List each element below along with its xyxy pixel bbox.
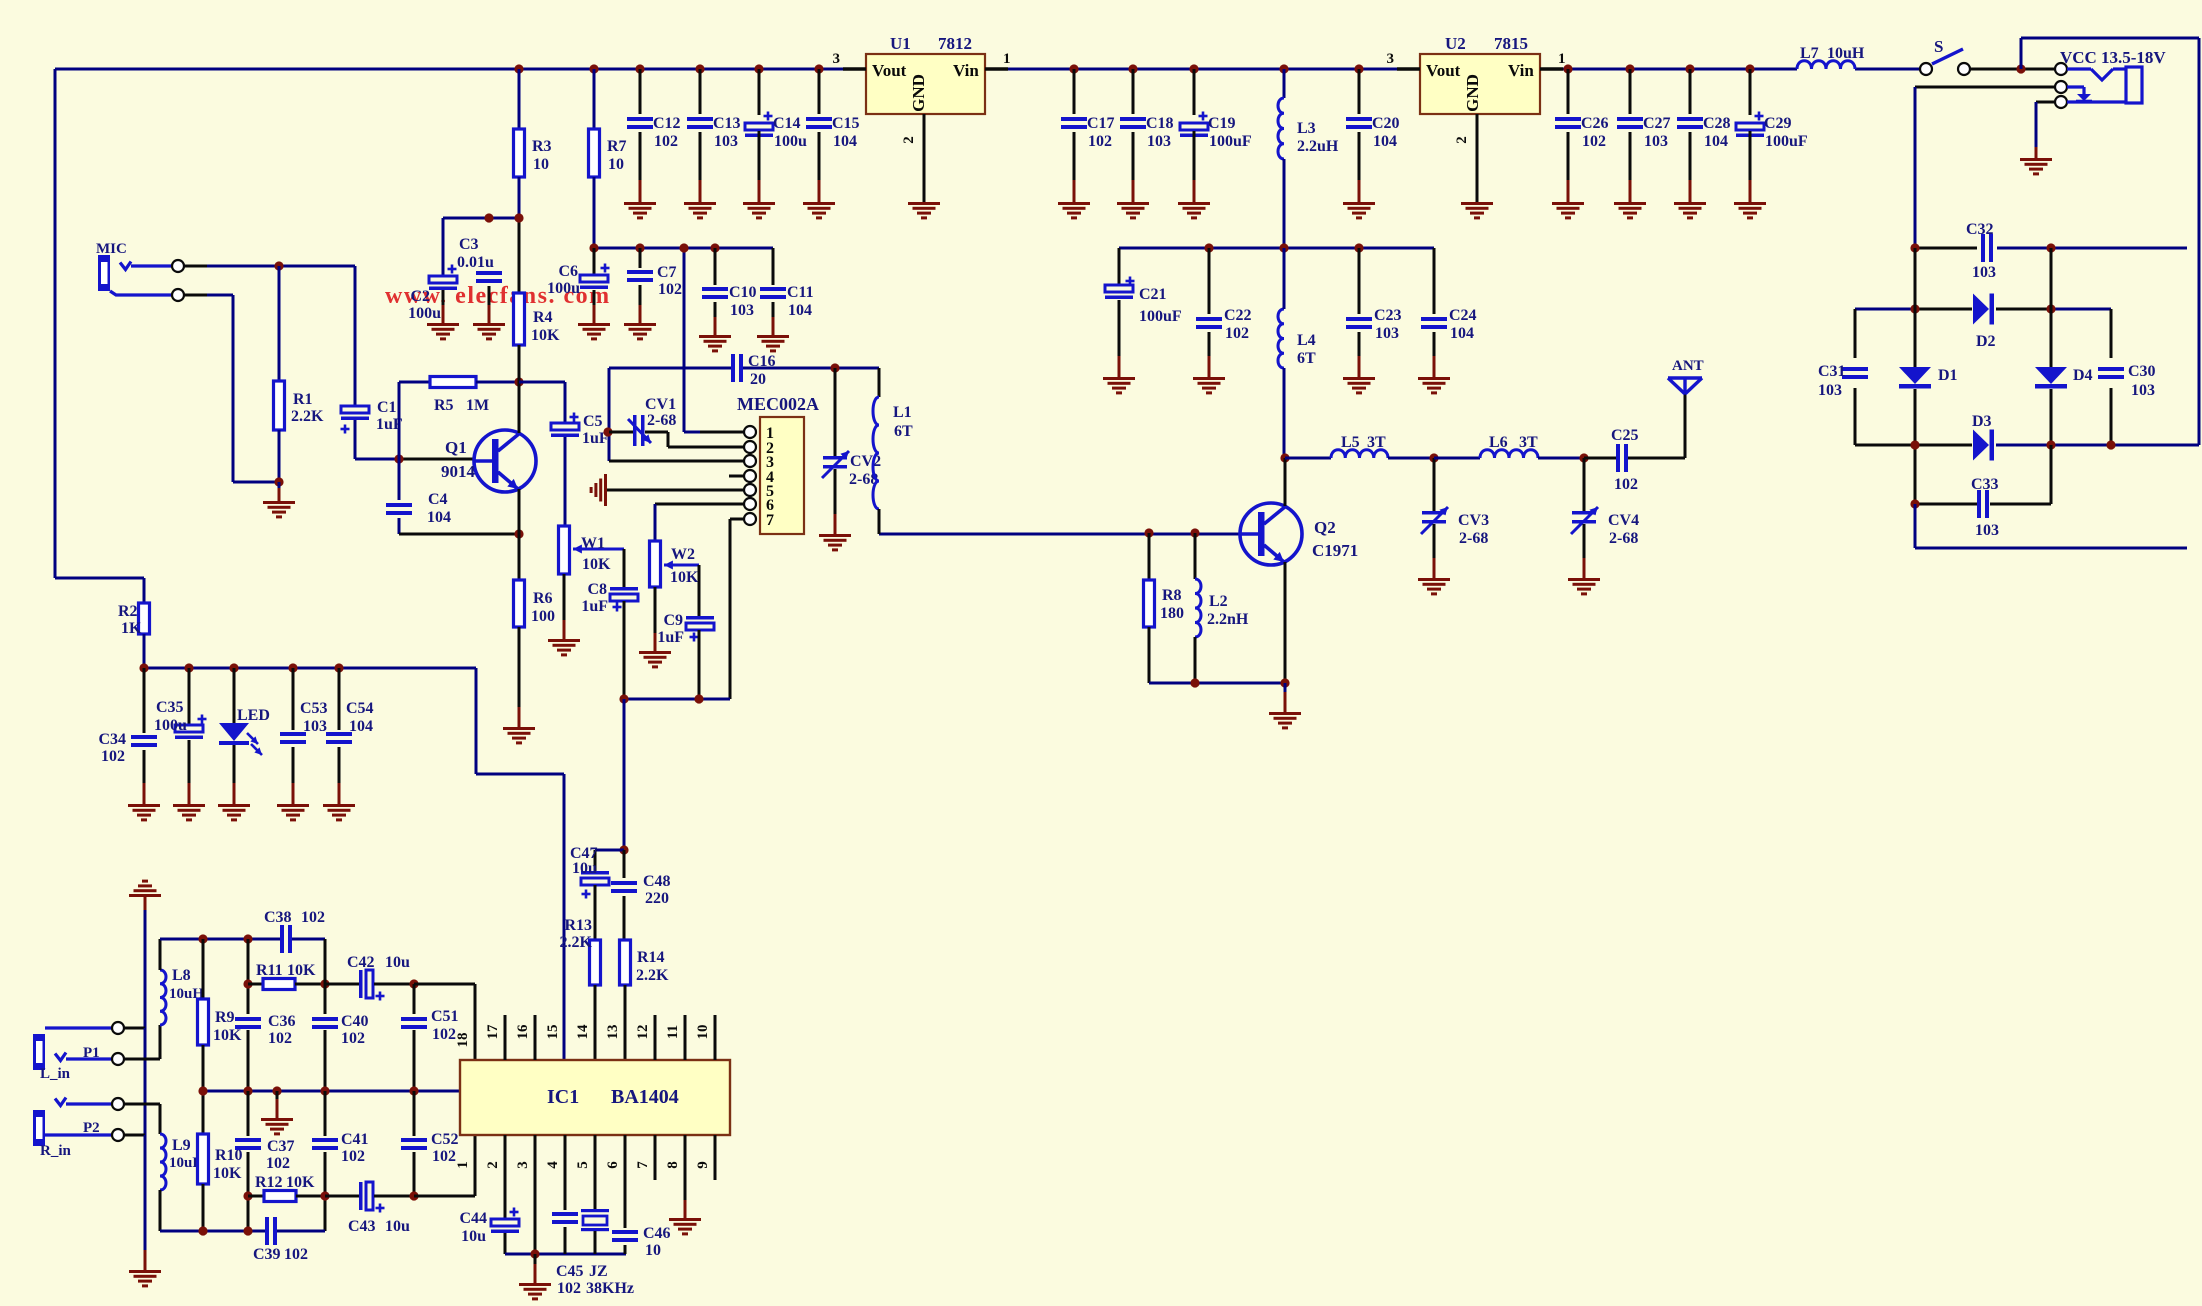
capacitor C20	[1346, 69, 1400, 202]
ground rail P1 P2	[124, 880, 161, 1270]
capacitor C45	[552, 1135, 584, 1297]
capacitor C16	[731, 353, 776, 388]
wire pin7 down	[729, 519, 732, 699]
svg-text:Vin: Vin	[1508, 61, 1534, 80]
node input top bus junctions	[198, 934, 252, 943]
capacitor C4	[386, 459, 451, 534]
IC IC1 BA1404	[460, 1060, 730, 1135]
capacitor C10	[702, 248, 757, 335]
svg-text:11: 11	[665, 1025, 681, 1039]
potentiometer W2	[650, 541, 700, 587]
capacitor C43	[325, 1182, 414, 1235]
node switch-jack junction	[2016, 64, 2025, 73]
pin 11 IC1	[665, 1015, 685, 1060]
node Q1 base junction	[394, 454, 403, 463]
svg-text:7812: 7812	[938, 34, 972, 53]
svg-text:LED: LED	[237, 707, 270, 724]
svg-text:1uF: 1uF	[657, 629, 684, 646]
svg-text:R7: R7	[607, 138, 627, 155]
svg-text:C34: C34	[98, 731, 126, 748]
ground C21	[1103, 377, 1135, 394]
svg-text:102: 102	[1225, 325, 1249, 342]
resistor R12	[248, 1174, 325, 1202]
svg-text:C19: C19	[1208, 115, 1236, 132]
wire pin3 ground stem	[534, 1254, 537, 1283]
pin 17 IC1	[485, 1015, 505, 1060]
diode D1	[1899, 367, 1958, 389]
ground U2	[1461, 202, 1493, 219]
svg-text:17: 17	[485, 1024, 501, 1040]
ground CV2	[819, 534, 851, 551]
wire CV1 net vertical	[608, 368, 611, 461]
node LED bus junctions	[139, 663, 343, 672]
capacitor C42	[325, 954, 414, 1001]
wire C52 branch	[413, 1091, 416, 1196]
svg-text:2: 2	[1454, 136, 1470, 144]
pin 1 MEC002A	[684, 425, 774, 442]
svg-text:C33: C33	[1971, 476, 1999, 493]
node C3 junction	[484, 213, 493, 222]
capacitor C52	[401, 1131, 459, 1165]
wire to top right corner	[2021, 38, 2199, 445]
antenna ANT	[1668, 358, 1704, 394]
capacitor C7	[627, 248, 682, 323]
svg-text:10K: 10K	[213, 1027, 242, 1044]
svg-text:C26: C26	[1581, 115, 1609, 132]
svg-text:Vout: Vout	[872, 61, 907, 80]
pin 15 IC1	[545, 1025, 561, 1040]
svg-text:R1: R1	[293, 391, 313, 408]
svg-text:R14: R14	[637, 949, 665, 966]
pin 7 IC1	[635, 1135, 655, 1180]
ground C24	[1418, 377, 1450, 394]
diode D4	[2035, 367, 2093, 389]
svg-text:C35: C35	[156, 699, 184, 716]
svg-text:C2: C2	[410, 288, 430, 305]
ground CV3	[1418, 578, 1450, 595]
ground C6	[578, 323, 610, 340]
wire jack sleeve to ground	[2036, 102, 2055, 158]
svg-text:W1: W1	[581, 535, 605, 552]
svg-text:C10: C10	[729, 284, 757, 301]
pin 4 MEC002A	[729, 469, 774, 486]
svg-text:1M: 1M	[466, 397, 489, 414]
svg-text:R9: R9	[215, 1009, 235, 1026]
svg-text:C6: C6	[558, 263, 578, 280]
ground W2	[639, 651, 671, 668]
svg-text:3: 3	[1387, 51, 1395, 67]
ground pin3	[519, 1283, 551, 1300]
svg-text:C23: C23	[1374, 307, 1402, 324]
svg-text:1: 1	[455, 1161, 471, 1169]
wire Q2 base line	[879, 528, 1241, 537]
svg-text:102: 102	[658, 281, 682, 298]
svg-text:GND: GND	[909, 74, 928, 112]
ground C28	[1674, 202, 1706, 219]
capacitor C24	[1421, 248, 1477, 377]
capacitor C8	[581, 549, 638, 699]
pin 2 MEC002A	[668, 432, 774, 457]
svg-text:104: 104	[349, 718, 373, 735]
module MEC002A	[737, 394, 819, 534]
node bus2 right junctions	[1204, 243, 1363, 252]
svg-text:100uF: 100uF	[1139, 308, 1182, 325]
wire C2C3 bus	[443, 218, 520, 293]
svg-text:100uF: 100uF	[1209, 133, 1252, 150]
svg-text:D4: D4	[2073, 367, 2093, 384]
capacitor C31	[1818, 363, 1868, 399]
capacitor C26	[1555, 69, 1609, 202]
svg-text:C13: C13	[713, 115, 741, 132]
svg-text:10u: 10u	[385, 1218, 410, 1235]
wire pin1 net	[414, 1135, 475, 1196]
svg-text:2-68: 2-68	[1459, 530, 1488, 547]
capacitor C33	[1971, 476, 1999, 539]
svg-text:R11: R11	[256, 962, 283, 979]
inductor L7	[1797, 45, 1865, 69]
wire R5 feedback branch	[399, 382, 430, 459]
node R11 row right	[320, 979, 329, 988]
svg-text:C17: C17	[1087, 115, 1115, 132]
svg-text:C37: C37	[267, 1138, 295, 1155]
svg-text:IC1: IC1	[547, 1086, 579, 1108]
svg-text:C46: C46	[643, 1225, 671, 1242]
svg-text:Q1: Q1	[445, 438, 467, 457]
node R11 row left	[243, 979, 252, 988]
capacitor C38	[264, 909, 325, 953]
wire R1 to ground	[278, 482, 281, 501]
svg-text:2: 2	[485, 1161, 501, 1169]
svg-text:10u: 10u	[461, 1228, 486, 1245]
capacitor C23	[1346, 248, 1402, 377]
svg-text:L6: L6	[1489, 434, 1508, 451]
resistor R11	[248, 962, 325, 990]
svg-text:L7: L7	[1800, 45, 1819, 62]
resistor R14	[620, 940, 670, 1060]
svg-text:9: 9	[695, 1161, 711, 1169]
node input bottom bus junctions	[198, 1226, 252, 1235]
node R5 right junction	[514, 377, 523, 386]
wire bridge bottom out	[1915, 504, 2187, 548]
svg-text:102: 102	[432, 1026, 456, 1043]
svg-text:102: 102	[268, 1030, 292, 1047]
svg-text:102: 102	[1088, 133, 1112, 150]
ground C20	[1343, 202, 1375, 219]
svg-text:102: 102	[432, 1148, 456, 1165]
svg-text:10K: 10K	[213, 1165, 242, 1182]
svg-text:2.2K: 2.2K	[636, 967, 669, 984]
capacitor C34	[98, 668, 157, 804]
svg-text:L9: L9	[172, 1137, 191, 1154]
wire C31 branch	[1854, 309, 1857, 445]
capacitor C37	[235, 1138, 295, 1172]
capacitor C13	[687, 69, 741, 202]
ground C17	[1058, 202, 1090, 219]
svg-text:R12: R12	[255, 1174, 283, 1191]
svg-text:104: 104	[1450, 325, 1474, 342]
svg-text:CV4: CV4	[1608, 512, 1639, 529]
wire W2 to ground	[654, 587, 657, 651]
svg-text:103: 103	[1818, 382, 1842, 399]
svg-text:C9: C9	[663, 612, 683, 629]
capacitor C27	[1617, 69, 1671, 202]
svg-text:R8: R8	[1162, 587, 1182, 604]
watermark www.elecfans.com	[385, 283, 611, 309]
node R4 top junction	[514, 213, 523, 222]
svg-text:6T: 6T	[1297, 350, 1316, 367]
node C33 junction	[1910, 499, 1919, 508]
ground jack	[2020, 158, 2052, 175]
wire D3 row	[1855, 444, 2199, 447]
svg-text:10K: 10K	[670, 569, 699, 586]
ground C19	[1178, 202, 1210, 219]
svg-text:2-68: 2-68	[647, 412, 676, 429]
wire C16 row	[609, 367, 879, 370]
svg-text:103: 103	[1972, 264, 1996, 281]
capacitor C51	[401, 1008, 459, 1043]
ground pin8	[669, 1218, 701, 1235]
svg-text:13: 13	[605, 1025, 621, 1040]
svg-text:MIC: MIC	[96, 241, 127, 257]
diode D2	[1973, 294, 1996, 351]
pin 18 IC1	[455, 1033, 471, 1048]
svg-text:104: 104	[1704, 133, 1728, 150]
svg-text:JZ: JZ	[589, 1263, 608, 1280]
capacitor C11	[760, 248, 814, 335]
pin 7 MEC002A	[730, 512, 774, 529]
svg-text:C3: C3	[459, 236, 479, 253]
svg-text:103: 103	[730, 302, 754, 319]
svg-text:C15: C15	[832, 115, 860, 132]
wire Q2 emitter rail	[1149, 678, 1290, 687]
label MIC	[96, 241, 127, 257]
svg-text:C7: C7	[657, 264, 677, 281]
wire mid bus ground stem	[276, 1091, 279, 1118]
svg-text:C54: C54	[346, 700, 374, 717]
svg-text:P2: P2	[83, 1120, 100, 1136]
svg-text:18: 18	[455, 1033, 471, 1048]
inductor L5	[1285, 434, 1434, 458]
node C16-CV2 junction	[834, 368, 837, 456]
svg-text:C43: C43	[348, 1218, 376, 1235]
wire input mid bus	[203, 1090, 460, 1093]
ground P rail bottom	[129, 1270, 161, 1287]
svg-text:CV1: CV1	[645, 396, 676, 413]
ground pin5 MEC002A	[590, 474, 607, 506]
svg-text:10u: 10u	[572, 860, 597, 877]
wire MIC tip	[184, 265, 355, 268]
svg-text:5: 5	[575, 1161, 591, 1169]
node emitter junction	[514, 529, 523, 538]
wire C41 branch	[324, 1091, 327, 1231]
wire Q1 collector	[518, 382, 521, 433]
svg-text:3: 3	[515, 1161, 531, 1169]
svg-text:C51: C51	[431, 1008, 459, 1025]
ground R6	[503, 727, 535, 744]
wire C30 branch	[2110, 309, 2113, 445]
svg-text:L8: L8	[172, 967, 191, 984]
node top bus junctions	[514, 64, 1754, 73]
capacitor C15	[806, 69, 860, 202]
wire C4 bottom row	[399, 533, 519, 536]
svg-text:102: 102	[284, 1246, 308, 1263]
ground mid bus	[261, 1118, 293, 1135]
ground U1	[908, 202, 940, 219]
svg-text:C53: C53	[300, 700, 328, 717]
resistor R13	[560, 917, 601, 1060]
capacitor C21	[1105, 248, 1182, 377]
svg-text:2.2K: 2.2K	[560, 934, 593, 951]
switch S	[1920, 37, 2055, 75]
capacitor C39	[253, 1217, 308, 1263]
svg-text:7815: 7815	[1494, 34, 1528, 53]
svg-text:38KHz: 38KHz	[586, 1280, 634, 1297]
capacitor C48	[611, 850, 671, 940]
wire to antenna	[1684, 393, 1687, 458]
ground C53	[277, 804, 309, 821]
ground C7	[624, 323, 656, 340]
svg-text:0.01u: 0.01u	[457, 254, 494, 271]
resistor R3	[514, 69, 552, 218]
transistor Q2 C1971	[1240, 503, 1358, 565]
svg-text:100uF: 100uF	[1765, 133, 1808, 150]
connector DC jack	[2055, 63, 2142, 108]
svg-text:C25: C25	[1611, 427, 1639, 444]
node pin3 ground junction	[530, 1249, 539, 1258]
svg-text:C40: C40	[341, 1013, 369, 1030]
wire LED bus	[144, 668, 564, 1060]
svg-text:L_in: L_in	[40, 1066, 71, 1082]
svg-text:R5: R5	[434, 397, 454, 414]
wire input bottom bus	[160, 1230, 325, 1233]
ground C18	[1117, 202, 1149, 219]
node R1 bottom junction	[274, 477, 283, 486]
svg-text:2.2uH: 2.2uH	[1297, 138, 1339, 155]
svg-text:103: 103	[303, 718, 327, 735]
node C43 right	[409, 1191, 418, 1200]
capacitor C47	[570, 845, 624, 940]
svg-text:C29: C29	[1764, 115, 1792, 132]
svg-text:15: 15	[545, 1025, 561, 1040]
capacitor C29	[1736, 69, 1808, 202]
svg-text:D1: D1	[1938, 367, 1958, 384]
ground C12	[624, 202, 656, 219]
node R12 row left	[243, 1191, 252, 1200]
svg-text:MEC002A: MEC002A	[737, 394, 819, 414]
node D3 row junctions	[1910, 440, 2115, 449]
capacitor C36	[235, 1013, 296, 1047]
wire C40 branch	[324, 939, 327, 1091]
svg-text:C30: C30	[2128, 363, 2156, 380]
svg-text:C12: C12	[653, 115, 681, 132]
svg-text:10: 10	[608, 156, 624, 173]
svg-text:104: 104	[1373, 133, 1397, 150]
wire Q2 collector	[1284, 458, 1287, 506]
svg-text:C11: C11	[787, 284, 814, 301]
svg-text:C20: C20	[1372, 115, 1400, 132]
wire pin6 to W2	[654, 504, 657, 541]
svg-text:102: 102	[557, 1280, 581, 1297]
node bus2 left junctions	[589, 243, 719, 252]
svg-text:C52: C52	[431, 1131, 459, 1148]
wire MIC sleeve	[184, 295, 279, 482]
svg-text:100u: 100u	[154, 717, 187, 734]
connector P1 jack	[33, 1022, 124, 1082]
inductor L6	[1434, 434, 1584, 458]
wire audio bus	[624, 698, 730, 701]
wire bridge left branch	[1914, 248, 1917, 504]
pin 3 IC1	[515, 1135, 535, 1254]
ground C14	[743, 202, 775, 219]
inductor L2	[1195, 533, 1249, 683]
svg-text:Vin: Vin	[953, 61, 979, 80]
svg-text:4: 4	[545, 1161, 561, 1169]
ground C2	[427, 323, 459, 340]
svg-text:P1: P1	[83, 1045, 100, 1061]
svg-text:C1: C1	[377, 399, 397, 416]
pin 12 IC1	[635, 1015, 655, 1060]
svg-text:3T: 3T	[1519, 434, 1538, 451]
wire W1 to ground	[563, 574, 566, 639]
pin 13 IC1	[605, 1025, 621, 1040]
capacitor C41	[312, 1131, 369, 1165]
svg-text:C8: C8	[587, 581, 607, 598]
svg-text:1: 1	[1558, 51, 1566, 67]
node C42 right	[409, 979, 418, 988]
label VCC 13.5-18V	[2060, 48, 2166, 67]
resistor R5	[430, 377, 519, 415]
capacitor C5	[519, 382, 609, 526]
ground LED	[218, 804, 250, 821]
resistor R10	[198, 1091, 243, 1231]
ground C3	[473, 323, 505, 340]
svg-text:C4: C4	[428, 491, 448, 508]
svg-text:102: 102	[341, 1148, 365, 1165]
svg-text:103: 103	[1375, 325, 1399, 342]
pin 4 IC1	[545, 1161, 561, 1169]
svg-text:L5: L5	[1341, 434, 1360, 451]
node C32 row junctions	[1910, 243, 2055, 252]
capacitor C53	[280, 668, 328, 804]
resistor R4	[514, 293, 561, 382]
capacitor C2	[408, 218, 457, 323]
wire pin1 to bus2	[683, 248, 686, 432]
svg-text:16: 16	[515, 1024, 531, 1040]
wire input top bus	[160, 938, 325, 941]
wire C51 branch	[413, 984, 416, 1091]
trimmer CV3	[1421, 458, 1489, 578]
svg-text:C16: C16	[748, 353, 776, 370]
svg-text:102: 102	[341, 1030, 365, 1047]
svg-text:2.2nH: 2.2nH	[1207, 611, 1249, 628]
svg-text:6: 6	[605, 1161, 621, 1169]
ground R1	[263, 501, 295, 518]
svg-text:104: 104	[833, 133, 857, 150]
svg-text:C32: C32	[1966, 221, 1994, 238]
svg-text:7: 7	[766, 512, 774, 529]
pin 10 IC1	[695, 1015, 715, 1060]
wire bus2 left	[594, 247, 773, 250]
svg-text:W2: W2	[671, 546, 695, 563]
svg-text:10K: 10K	[531, 327, 560, 344]
node R12 row mid	[320, 1191, 329, 1200]
svg-text:ANT: ANT	[1672, 358, 1704, 374]
ground W1	[548, 639, 580, 656]
wire C32 row	[1915, 247, 2187, 250]
capacitor C1	[341, 266, 403, 459]
potentiometer W1	[559, 526, 625, 574]
capacitor C35	[154, 668, 207, 804]
